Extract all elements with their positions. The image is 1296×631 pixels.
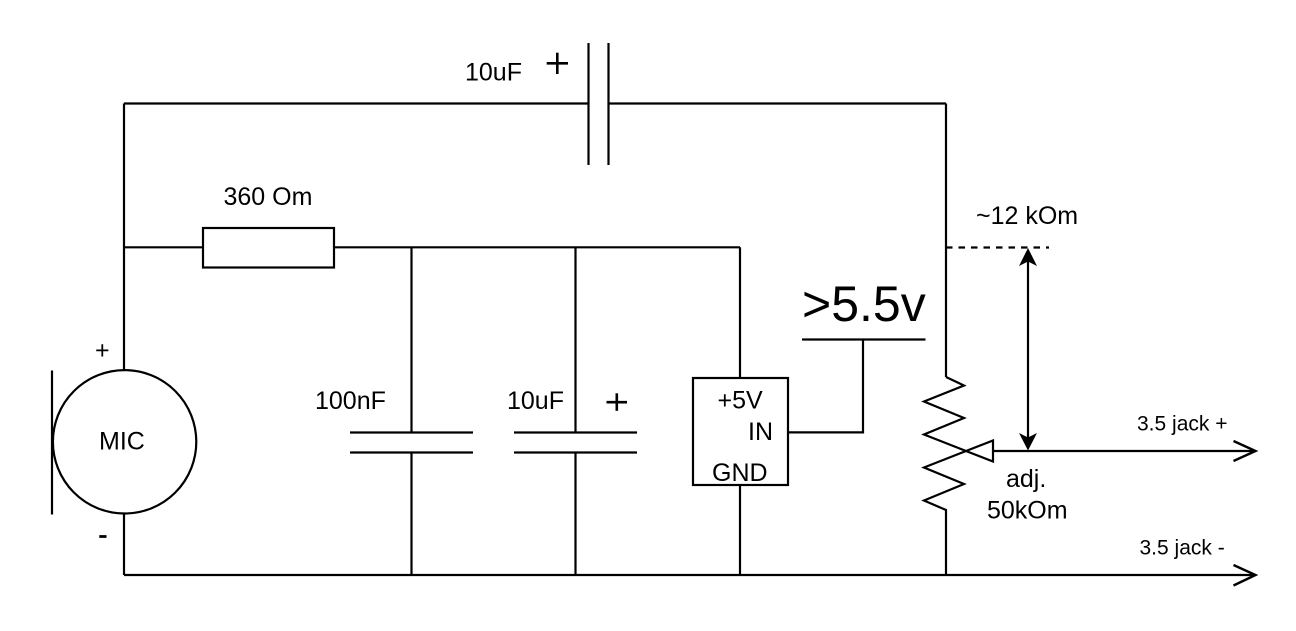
svg-text:50kOm: 50kOm	[987, 497, 1068, 525]
svg-text:3.5 jack +: 3.5 jack +	[1137, 413, 1227, 436]
svg-text:360 Om: 360 Om	[224, 183, 313, 211]
svg-text:adj.: adj.	[1006, 465, 1046, 493]
svg-text:10uF: 10uF	[465, 59, 522, 87]
svg-text:MIC: MIC	[99, 428, 145, 456]
svg-text:IN: IN	[748, 418, 773, 446]
svg-text:+: +	[95, 337, 110, 365]
svg-text:10uF: 10uF	[507, 387, 564, 415]
svg-text:GND: GND	[712, 459, 768, 487]
svg-text:>5.5v: >5.5v	[802, 276, 926, 332]
svg-text:100nF: 100nF	[315, 387, 386, 415]
svg-text:~12 kOm: ~12 kOm	[976, 202, 1078, 230]
svg-text:+5V: +5V	[718, 387, 764, 415]
svg-text:3.5 jack -: 3.5 jack -	[1140, 537, 1225, 560]
